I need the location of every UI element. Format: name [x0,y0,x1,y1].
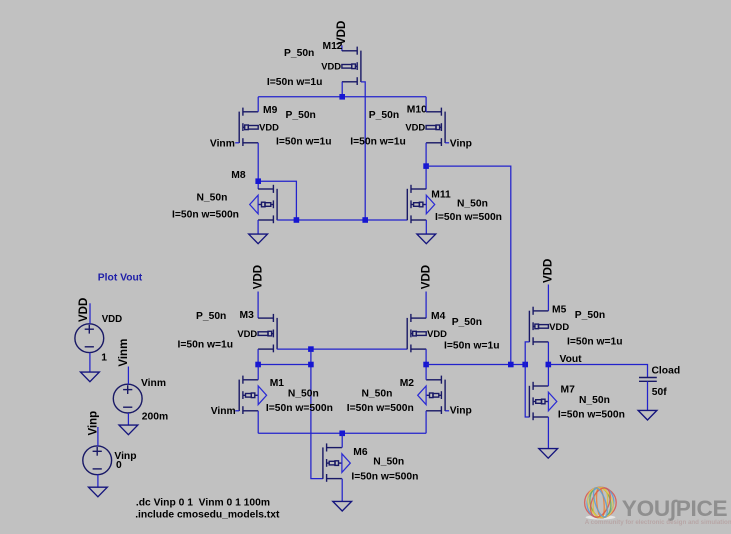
svg-text:M1: M1 [270,378,285,389]
wire M10 drain / M11 drain column [425,143,427,189]
power flag VDD (above M5) [543,259,555,311]
svg-text:I=50n w=1u: I=50n w=1u [178,339,234,350]
wire M2 source down to tail [425,411,427,434]
net stub Vinm at M9 gate [235,142,239,144]
svg-text:.include cmosedu_models.txt: .include cmosedu_models.txt [135,509,280,520]
wire M6 drain up to tail [341,433,343,447]
svg-text:VDD: VDD [78,298,90,322]
svg-text:I=50n w=500n: I=50n w=500n [558,410,625,421]
wire V1 to ground [89,353,91,372]
node junction M9 drain / M8 drain / branch [255,178,261,184]
svg-text:VDD: VDD [543,259,555,283]
wire M7 source to ground [547,417,549,448]
transistor M4 (PMOS P_50n, mirror output, bottom stage) [407,314,447,352]
svg-text:Vout: Vout [560,354,583,365]
wire mirror gate bus M3 to M4 [277,348,407,350]
svg-text:P_50n: P_50n [196,311,226,322]
svg-text:M6: M6 [353,447,368,458]
wire diode link [258,364,311,366]
svg-text:I=50n w=500n: I=50n w=500n [347,403,414,414]
svg-text:N_50n: N_50n [197,193,228,204]
net stub Vinp at M2 gate [445,410,449,412]
transistor M11 (NMOS N_50n, mirror output, top stage) [407,185,434,223]
transistor M2 (NMOS N_50n, right input of bottom diff pair) [418,376,445,414]
wire M12 gate down to mirror bus [361,82,365,220]
net stub / rotated name Vinp on V3 [87,411,99,446]
wire V3 to ground [97,474,99,487]
ground under V3 [89,487,108,497]
svg-text:Vinm: Vinm [141,378,166,389]
wire M1 source down to tail [257,411,259,434]
node junction M3/M1 drains [255,362,261,368]
svg-text:VDD: VDD [102,314,122,325]
net stub / rotated name VDD on V1 [78,298,90,324]
power flag VDD (above M4) [420,265,432,318]
wire M2 drain up [425,365,427,380]
svg-text:Vinm: Vinm [210,139,235,150]
wire tail bus [258,432,426,434]
ground under M11 [417,234,436,244]
node junction rail/M12 drain [339,94,345,100]
wire mirror gate bus M8 to M11 [277,219,407,221]
svg-text:200m: 200m [142,412,168,423]
transistor M6 (NMOS N_50n, tail current sink) [323,443,350,481]
node junction first stage output [423,163,429,169]
watermark logo YOUSPICE [583,484,731,527]
node junction mirror bus / bias tap [308,346,314,352]
svg-text:VDD: VDD [252,265,264,289]
svg-text:I=50n w=1u: I=50n w=1u [444,341,500,352]
svg-text:M11: M11 [431,190,451,201]
svg-text:1: 1 [101,353,107,364]
transistor M8 (NMOS N_50n, diode-connected mirror, top stage) [250,185,277,223]
node junction gate bus / M12 gate [362,217,368,223]
net stub Vinp at M10 gate [445,142,449,144]
svg-text:M7: M7 [561,385,576,396]
node junction gate bus / diode branch [294,217,300,223]
svg-text:Vinm: Vinm [211,406,236,417]
wire M7 drain up to Vout [547,365,549,387]
ground under V1 [81,372,100,382]
ground under Cload [638,410,657,420]
wire V2 to ground [127,413,129,425]
svg-text:Vinm: Vinm [118,339,130,367]
node junction Vout [546,362,552,368]
svg-text:P_50n: P_50n [452,317,482,328]
node junction stage outputs merge [508,362,514,368]
svg-text:VDD: VDD [405,122,425,133]
wire M4 drain down [425,349,427,364]
svg-text:VDD: VDD [259,122,279,133]
ground under M7 [539,449,558,459]
svg-text:VDD: VDD [237,328,257,339]
transistor M7 (NMOS N_50n, output driver pull-down) [529,382,556,420]
svg-text:N_50n: N_50n [457,199,488,210]
voltage source V3 (Vinp, 0 V) [83,446,112,475]
svg-text:I=50n w=500n: I=50n w=500n [435,212,502,223]
wire M8 drain branch to gate bus [258,181,296,220]
node junction tail / M6 drain [339,431,345,437]
wire M9 source up to rail [257,97,259,112]
ground under V2 [119,425,138,435]
svg-text:0: 0 [116,460,122,471]
svg-text:M8: M8 [231,170,246,181]
svg-text:M5: M5 [552,305,567,316]
transistor M12 (PMOS P_50n, tail of top diff pair) [321,47,361,85]
transistor M5 (PMOS P_50n, output driver pull-up) [529,307,569,345]
svg-text:I=50n w=500n: I=50n w=500n [266,403,333,414]
svg-text:I=50n w=500n: I=50n w=500n [172,210,239,221]
svg-text:M9: M9 [263,105,278,116]
net stub Vinm at M1 gate [235,410,239,412]
wire M12 drain to rail [341,82,343,97]
wire M3 drain down [257,349,259,364]
wire M10 source up to rail [425,97,427,112]
ground under M8 [249,234,268,244]
svg-text:N_50n: N_50n [362,389,393,400]
wire second-stage input bus [426,364,525,366]
wire bias tap down to M6 gate [311,349,323,479]
transistor M9 (PMOS P_50n, left input of top diff pair) [239,108,279,146]
power flag VDD (above M12) [336,21,348,51]
svg-text:M3: M3 [240,310,255,321]
svg-text:VDD: VDD [420,265,432,289]
svg-text:P_50n: P_50n [284,48,314,59]
svg-text:M2: M2 [400,378,415,389]
node junction M4/M2 drains / stage output [423,362,429,368]
node junction diode link / bias tap [308,362,314,368]
wire M5 drain down to Vout [547,342,549,365]
voltage source V1 (VDD, 1 V) [75,324,104,353]
svg-text:N_50n: N_50n [579,395,610,406]
transistor M1 (NMOS N_50n, left input of bottom diff pair) [239,376,266,414]
svg-text:50f: 50f [652,387,667,398]
svg-text:VDD: VDD [321,61,341,72]
net stub / rotated name Vinm on V2 [118,339,130,385]
svg-text:Vinp: Vinp [450,138,472,149]
node Vout wire to load [548,365,647,378]
transistor M10 (PMOS P_50n, right input of top diff pair) [405,108,445,146]
svg-text:.dc Vinp 0 1 Vinm 0 1 100m: .dc Vinp 0 1 Vinm 0 1 100m [136,497,270,508]
wire M6 source to ground [341,479,343,502]
svg-text:N_50n: N_50n [288,389,319,400]
svg-text:VDD: VDD [427,328,447,339]
svg-text:I=50n w=1u: I=50n w=1u [276,136,332,147]
svg-text:Cload: Cload [652,365,681,376]
capacitor Cload [639,378,657,382]
svg-text:N_50n: N_50n [373,456,404,467]
svg-text:Vinp: Vinp [87,411,99,436]
svg-text:I=50n w=500n: I=50n w=500n [351,471,418,482]
wire M1 drain up [257,365,259,380]
svg-text:P_50n: P_50n [286,110,316,121]
svg-text:Plot Vout: Plot Vout [98,272,143,283]
transistor M3 (PMOS P_50n, diode mirror, bottom stage) [237,314,277,352]
svg-text:P_50n: P_50n [575,310,605,321]
svg-text:A community for electronic des: A community for electronic design and si… [585,519,731,526]
svg-text:M12: M12 [323,41,343,52]
svg-text:M10: M10 [407,105,427,116]
voltage source V2 (Vinm, 200m) [113,384,142,413]
svg-text:M4: M4 [431,311,446,322]
svg-text:I=50n w=1u: I=50n w=1u [267,77,323,88]
wire M11 source to ground [425,220,427,234]
svg-text:I=50n w=1u: I=50n w=1u [350,136,406,147]
svg-text:VDD: VDD [549,321,569,332]
svg-text:Vinp: Vinp [450,406,472,417]
wire M5/M7 common gate column [525,342,529,417]
wire M9 drain down to M8 drain [257,143,259,189]
wire first-stage output down to second stage [426,166,511,364]
svg-text:P_50n: P_50n [369,110,399,121]
wire top rail (M9/M10 sources) [258,96,426,98]
ground under M6 [333,501,352,511]
svg-text:I=50n w=1u: I=50n w=1u [567,337,623,348]
wire M8 source to ground [257,220,259,234]
wire Cload to ground [647,381,649,410]
node junction output-driver gates [522,362,528,368]
power flag VDD (above M3) [252,265,264,318]
